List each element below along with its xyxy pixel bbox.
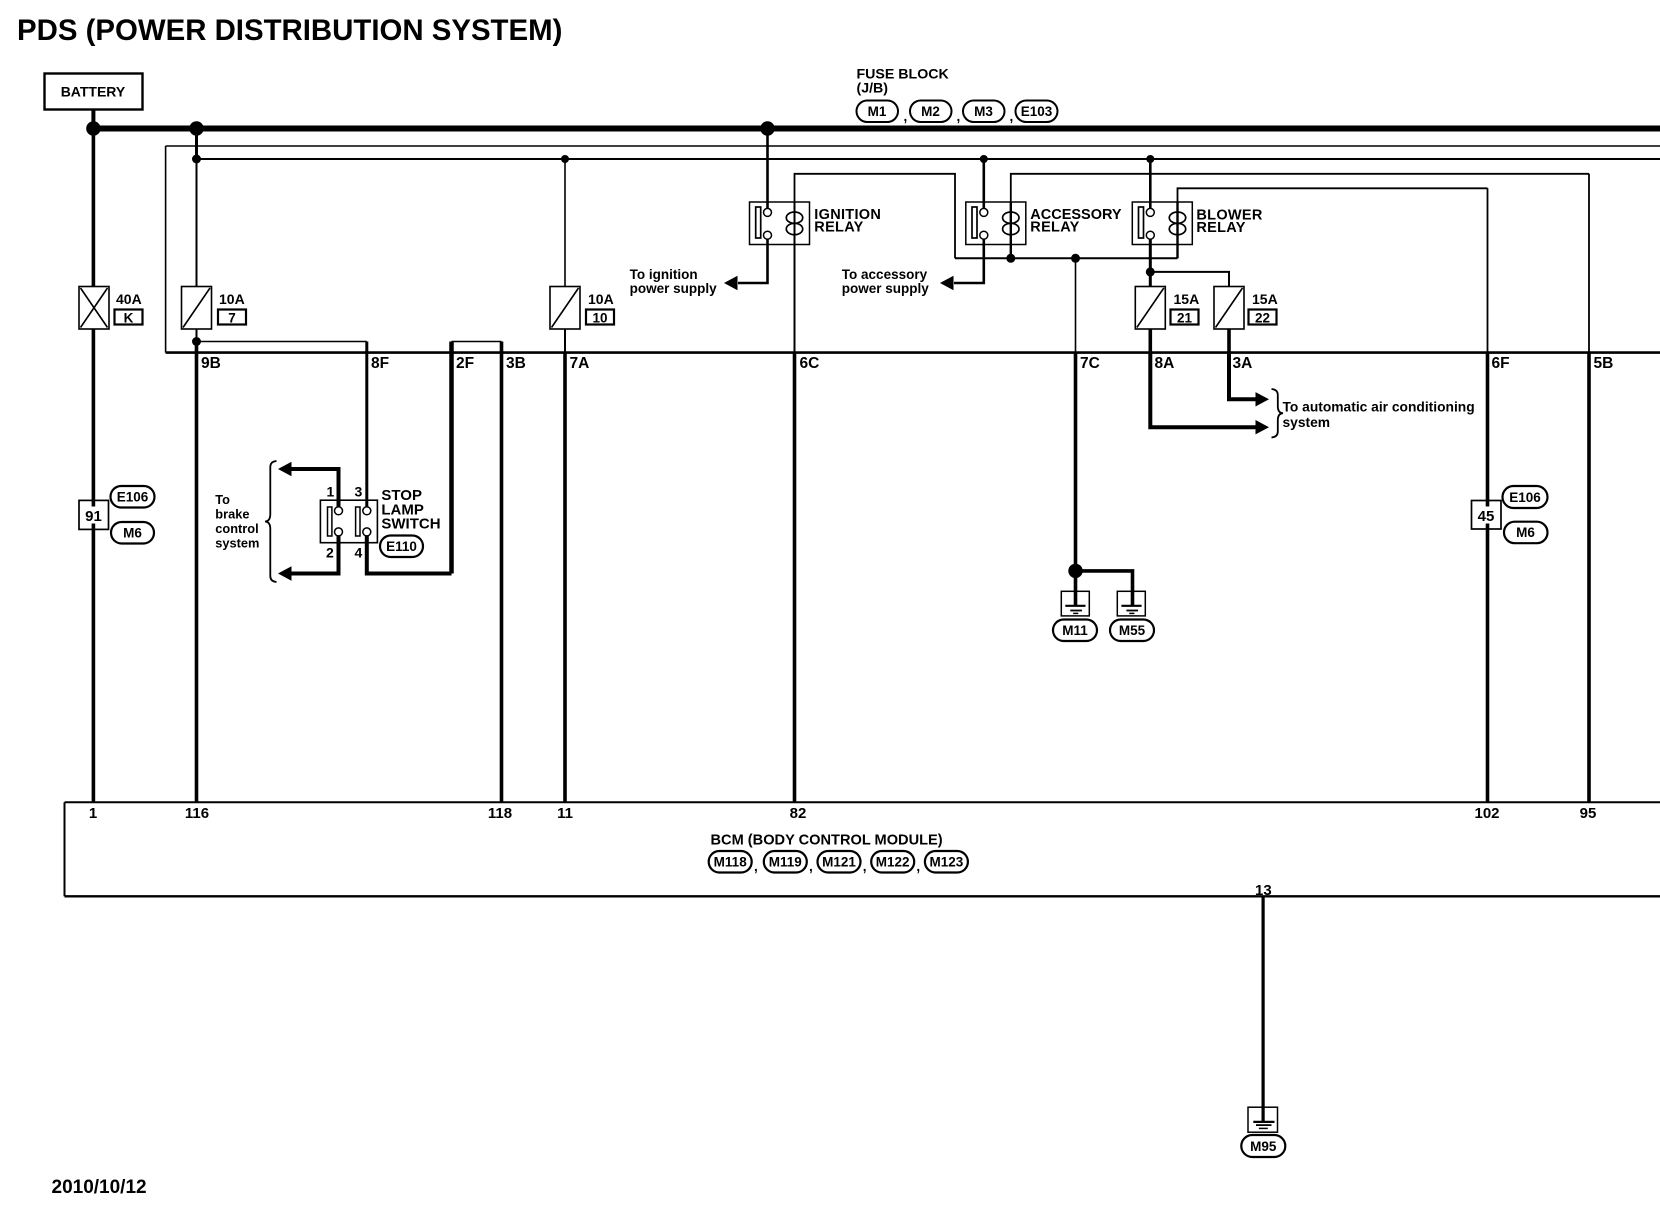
wire 5B to BCM pin 95 [1587, 353, 1591, 803]
svg-text:2F: 2F [456, 355, 474, 372]
stop lamp switch S1 [320, 500, 377, 543]
svg-text:,: , [916, 859, 920, 874]
svg-text:,: , [904, 109, 908, 124]
svg-text:7A: 7A [570, 355, 590, 372]
wire blower contact out [1149, 239, 1152, 272]
connector M6 (right) [1504, 522, 1548, 544]
svg-text:,: , [754, 859, 758, 874]
label To accessory power supply [842, 267, 930, 296]
svg-text:2010/10/12: 2010/10/12 [52, 1177, 147, 1198]
brace to brake control system [265, 461, 277, 582]
wire 7C to ground junction [1074, 353, 1078, 571]
ignition relay K1 [750, 202, 810, 245]
svg-text:1: 1 [89, 805, 97, 822]
wire junction to fuse 22 [1150, 272, 1229, 287]
svg-text:brake: brake [215, 507, 249, 522]
wire fuse 10 to box bottom [564, 329, 566, 353]
arrow to accessory power supply [940, 276, 954, 290]
wire rail159 to accessory relay contact [982, 159, 985, 209]
arrow to AC system (lower) [1256, 420, 1270, 434]
node rail258 7C junction [1071, 254, 1080, 263]
fuse 10 10A [550, 287, 580, 330]
wire 8A drop from fuse 21 [1149, 329, 1153, 353]
svg-text:E106: E106 [117, 490, 149, 505]
svg-text:system: system [1283, 415, 1331, 430]
svg-text:15A: 15A [1174, 291, 1200, 307]
label To automatic air conditioning system [1283, 400, 1475, 431]
svg-text:E103: E103 [1021, 104, 1053, 119]
svg-text:,: , [1010, 109, 1014, 124]
wire connector 91 to BCM pin 1 [92, 529, 96, 802]
wire 6F to BCM pin 102 [1486, 353, 1490, 803]
label BLOWER RELAY [1196, 208, 1262, 237]
wire blower coil bottom to rail 258 [1176, 245, 1178, 259]
wire junction to fuse 21 [1149, 272, 1152, 287]
label To brake control system [215, 492, 259, 551]
svg-text:7: 7 [228, 311, 236, 326]
node bus junction 9B feed [189, 121, 203, 135]
arrow to brake control (upper) [278, 462, 292, 476]
svg-text:9B: 9B [201, 355, 221, 372]
connector M2 [904, 101, 952, 125]
svg-text:E106: E106 [1509, 490, 1541, 505]
connector 45 [1472, 501, 1502, 530]
connector M122 [863, 851, 915, 874]
svg-text:118: 118 [488, 805, 512, 822]
connector M1 [857, 101, 899, 123]
wire bridge 2F-3B [452, 341, 502, 343]
wire bus to fusible link [92, 129, 96, 287]
wire stop lamp pin 1 to brake arrow [291, 469, 339, 507]
svg-text:control: control [215, 521, 258, 536]
label To ignition power supply [630, 267, 718, 296]
svg-text:M122: M122 [876, 855, 910, 870]
wire rail 258 [955, 257, 1178, 259]
connector M6 (left) [111, 522, 154, 544]
svg-text:system: system [215, 536, 259, 551]
svg-text:82: 82 [790, 805, 807, 822]
brace to automatic air conditioning [1272, 389, 1284, 438]
svg-text:10A: 10A [588, 291, 614, 307]
svg-text:3A: 3A [1233, 355, 1253, 372]
arrow to brake control (lower) [278, 566, 292, 580]
svg-text:10A: 10A [219, 291, 245, 307]
svg-text:8F: 8F [371, 355, 389, 372]
wire BCM pin 13 to ground M95 [1261, 896, 1264, 1122]
svg-text:1: 1 [327, 484, 335, 500]
wire accessory relay contact out [954, 239, 984, 283]
svg-text:6F: 6F [1492, 355, 1510, 372]
svg-text:,: , [809, 859, 813, 874]
svg-text:M121: M121 [822, 855, 856, 870]
wire fusible link to connector 91 [92, 329, 96, 500]
svg-text:(J/B): (J/B) [857, 81, 889, 97]
wire 3B drop to BCM pin 118 [500, 342, 504, 803]
wire ignition relay contact out [738, 239, 768, 283]
ground M95 [1248, 1107, 1278, 1132]
svg-text:7C: 7C [1080, 355, 1100, 372]
svg-text:102: 102 [1474, 805, 1499, 822]
svg-text:45: 45 [1478, 508, 1495, 525]
svg-text:40A: 40A [116, 291, 142, 307]
label fuse number 21 [1171, 310, 1199, 326]
node rail258 accessory coil junction [1006, 254, 1015, 263]
svg-text:5B: 5B [1594, 355, 1614, 372]
fuse 21 15A [1135, 287, 1165, 330]
wire 7C drop inside box [1075, 258, 1077, 352]
fusible link K 40A [79, 287, 109, 330]
connector M11 [1053, 620, 1097, 642]
node rail159 junction fuse10 feed [561, 155, 569, 163]
svg-text:M123: M123 [930, 855, 964, 870]
fuse 7 10A [182, 287, 212, 330]
svg-text:To ignition: To ignition [630, 267, 698, 282]
wire 8A to lower AC arrow [1150, 353, 1256, 428]
svg-text:RELAY: RELAY [1030, 220, 1079, 236]
wire main battery bus [93, 126, 1660, 132]
connector 91 [79, 500, 109, 529]
wire 6F drop [1487, 188, 1489, 352]
svg-text:To: To [215, 492, 230, 507]
connector M123 [916, 851, 968, 874]
svg-text:BCM (BODY CONTROL MODULE): BCM (BODY CONTROL MODULE) [711, 833, 943, 849]
svg-text:91: 91 [85, 508, 102, 525]
connector M3 [957, 101, 1005, 125]
wire to ground M55 [1076, 571, 1133, 606]
connector M55 [1110, 620, 1154, 642]
fuse block box outline [166, 146, 1660, 353]
wire accessory coil top to rail174 [1011, 174, 1589, 202]
svg-text:M1: M1 [868, 104, 887, 119]
blower relay K3 [1132, 202, 1192, 245]
label fuse number 22 [1249, 310, 1277, 326]
svg-text:M2: M2 [921, 104, 940, 119]
wire to ground M11 [1074, 571, 1078, 606]
svg-text:RELAY: RELAY [1196, 220, 1245, 236]
wire fuse 7 to node 9B [196, 329, 198, 342]
label STOP LAMP SWITCH [381, 487, 440, 533]
svg-text:BATTERY: BATTERY [61, 84, 126, 100]
connector M121 [809, 851, 861, 874]
wire 7A drop to BCM pin 11 [563, 353, 567, 803]
wire blower coil top to rail188 [1178, 188, 1488, 202]
svg-text:PDS (POWER DISTRIBUTION SYSTEM: PDS (POWER DISTRIBUTION SYSTEM) [17, 14, 562, 47]
svg-text:2: 2 [326, 545, 334, 561]
wire 9B drop to BCM pin 116 [195, 342, 199, 803]
wire rail159 to fuse 7 [196, 159, 198, 287]
node bus junction ignition relay feed [760, 121, 774, 135]
svg-text:,: , [957, 109, 961, 124]
wire bus to rail159 [195, 129, 198, 160]
svg-text:M6: M6 [1516, 525, 1535, 540]
label fuse number 10 [586, 310, 614, 326]
connector M95 [1241, 1135, 1285, 1157]
connector M118 [709, 851, 752, 873]
svg-text:22: 22 [1255, 311, 1270, 326]
wire accessory coil bottom to rail 258 [1010, 245, 1012, 259]
fuse block J/B label [857, 67, 950, 97]
node junction below fuse 7 [192, 337, 201, 346]
svg-text:To accessory: To accessory [842, 267, 928, 282]
wire rail y341 to 8F [197, 341, 367, 343]
node rail159 junction blower relay feed [1146, 155, 1154, 163]
wire stop lamp pin 2 to brake arrow [291, 536, 339, 574]
node rail159 junction x196 [192, 155, 201, 164]
svg-text:21: 21 [1177, 311, 1193, 326]
wire rail y159 [197, 158, 1660, 160]
svg-text:95: 95 [1580, 805, 1597, 822]
wire rail159 to blower relay contact [1149, 159, 1152, 209]
node ground junction [1068, 564, 1082, 578]
svg-text:6C: 6C [800, 355, 820, 372]
wire 5B drop [1588, 174, 1590, 353]
svg-text:3: 3 [355, 484, 363, 500]
arrow to ignition power supply [724, 276, 738, 290]
svg-text:M118: M118 [714, 855, 748, 870]
svg-text:10: 10 [592, 311, 607, 326]
svg-text:power supply: power supply [630, 281, 718, 296]
label fuse number 7 [218, 310, 246, 326]
BCM box [65, 802, 1660, 896]
svg-text:power supply: power supply [842, 281, 930, 296]
svg-text:M11: M11 [1062, 623, 1088, 638]
svg-text:K: K [124, 311, 134, 326]
svg-text:,: , [863, 859, 867, 874]
fuse 22 15A [1214, 287, 1244, 330]
node blower output junction [1146, 267, 1155, 276]
svg-text:RELAY: RELAY [814, 220, 863, 236]
wire 6C drop to BCM pin 82 [793, 353, 797, 803]
label IGNITION RELAY [814, 207, 881, 236]
arrow to AC system (upper) [1256, 392, 1270, 406]
wire stop lamp pin 4 to 2F [367, 536, 452, 574]
connector E110 [380, 536, 423, 558]
wire 2F drop [449, 342, 454, 574]
svg-text:15A: 15A [1252, 291, 1278, 307]
wire 3A to upper AC arrow [1229, 353, 1257, 400]
svg-text:11: 11 [557, 805, 573, 822]
svg-text:4: 4 [355, 545, 363, 561]
svg-text:M55: M55 [1119, 623, 1146, 638]
connector E106 (right) [1503, 486, 1548, 508]
node bus-battery junction [86, 121, 100, 135]
wire battery to bus [91, 111, 95, 129]
connector E103 [1010, 101, 1058, 125]
connector M119 [754, 851, 807, 874]
wire ignition relay coil top to rail 258 [795, 174, 956, 258]
connector E106 (left) [111, 486, 155, 508]
svg-text:E110: E110 [386, 539, 417, 554]
svg-text:8A: 8A [1155, 355, 1175, 372]
svg-text:3B: 3B [506, 355, 526, 372]
ground M11 [1061, 591, 1089, 616]
battery B1 [45, 74, 143, 110]
svg-text:M95: M95 [1250, 1139, 1277, 1154]
accessory relay K2 [966, 202, 1026, 245]
svg-text:M6: M6 [123, 526, 142, 541]
svg-text:M3: M3 [974, 104, 993, 119]
wire bus to ignition relay contact [766, 129, 769, 209]
svg-text:SWITCH: SWITCH [381, 516, 440, 533]
label fusible link letter K [115, 310, 143, 326]
svg-text:To automatic air conditioning: To automatic air conditioning [1283, 400, 1475, 415]
label ACCESSORY RELAY [1030, 207, 1122, 236]
wire 3A drop from fuse 22 [1227, 329, 1231, 353]
wire ignition relay coil bottom through box [794, 245, 796, 353]
node rail159 junction accessory relay feed [980, 155, 988, 163]
wire 8F drop to stop lamp switch pin 3 [365, 342, 368, 508]
wire rail159 to fuse 10 [564, 159, 566, 287]
svg-text:M119: M119 [769, 855, 802, 870]
ground M55 [1117, 591, 1145, 616]
svg-text:116: 116 [185, 805, 209, 822]
